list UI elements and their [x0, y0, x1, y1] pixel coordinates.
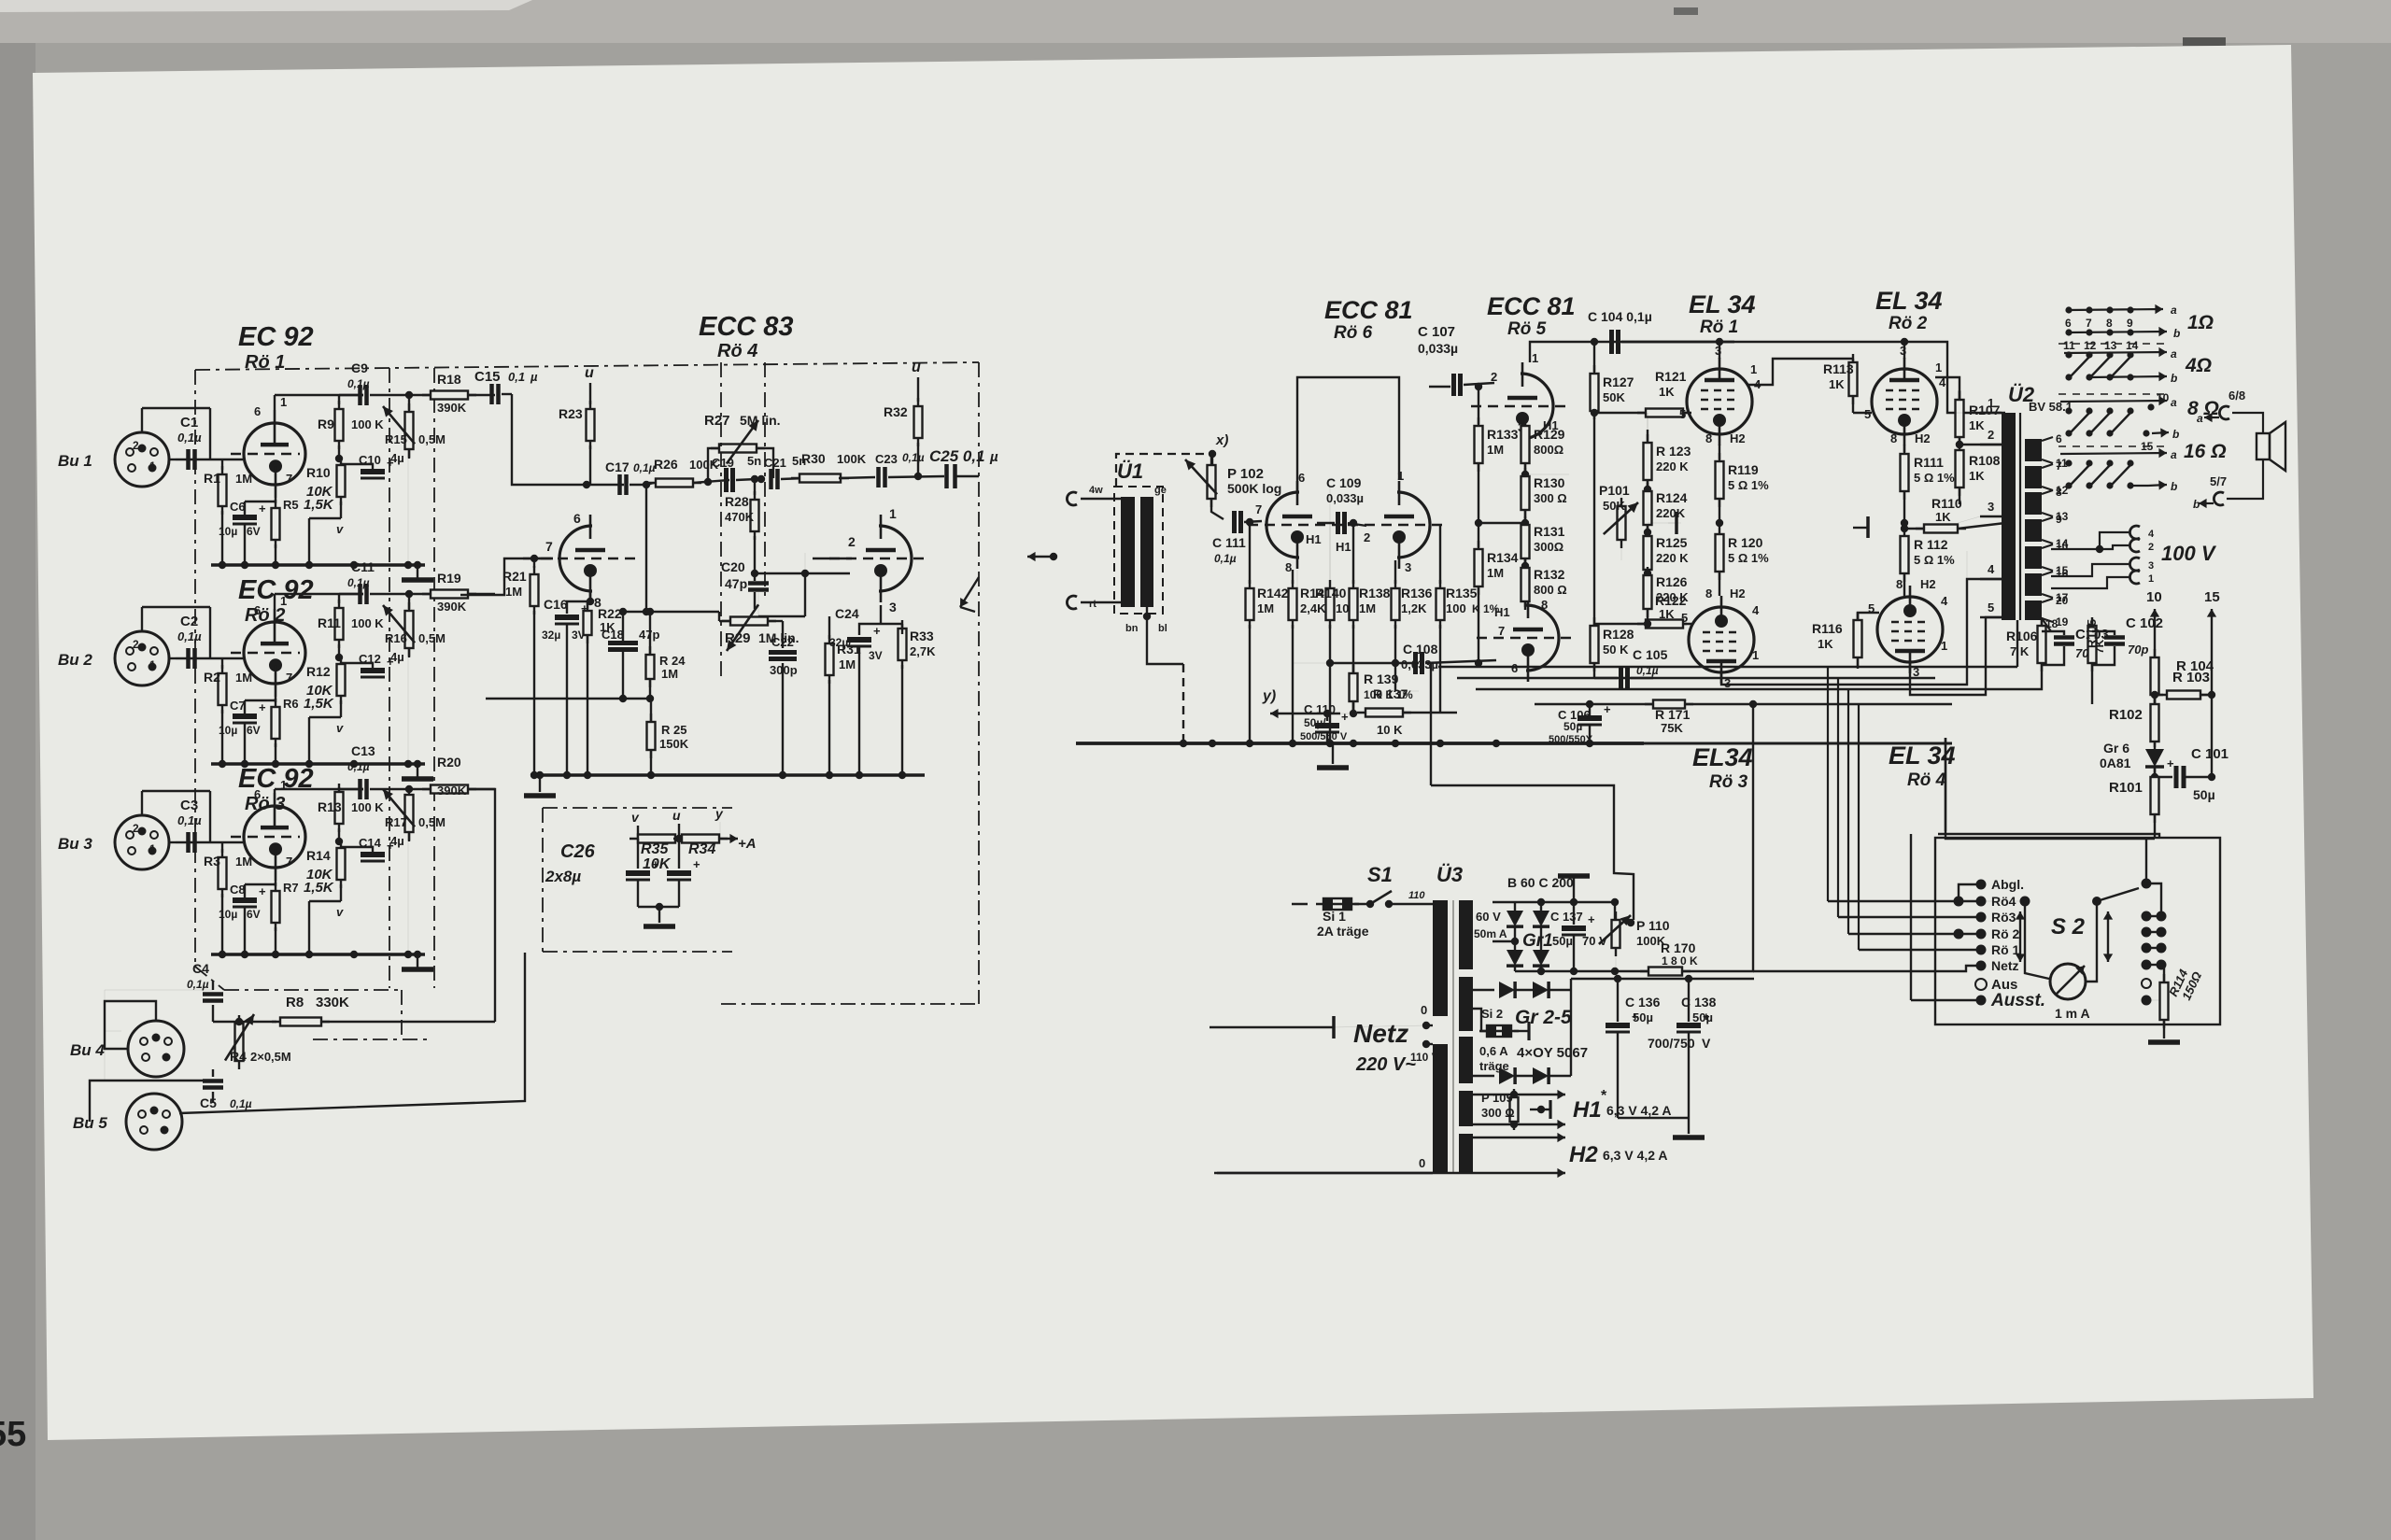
svg-text:1M: 1M: [661, 667, 678, 681]
svg-text:H2: H2: [1569, 1142, 1598, 1167]
svg-text:v: v: [631, 810, 640, 825]
junction row: [623, 611, 719, 613]
svg-text:0,1: 0,1: [508, 370, 525, 384]
svg-text:träge: träge: [1479, 1059, 1509, 1073]
svg-text:Gr1: Gr1: [1522, 931, 1553, 951]
S2 selector contacts left: [1976, 880, 1987, 890]
wire B+ riser: [1752, 704, 1754, 971]
capacitor C14 4µ: [341, 846, 373, 848]
resistor R23: [589, 401, 591, 449]
svg-text:5: 5: [1868, 601, 1875, 615]
wire Bu 3 to grid: [169, 841, 176, 843]
wires 100V taps: [2051, 532, 2129, 549]
svg-text:0,1µ: 0,1µ: [347, 760, 370, 773]
svg-text:H1: H1: [1306, 532, 1322, 546]
svg-text:10 K: 10 K: [1377, 723, 1403, 737]
svg-text:5 Ω 1%: 5 Ω 1%: [1914, 471, 1955, 485]
svg-text:1M: 1M: [235, 671, 252, 685]
svg-text:10µ: 10µ: [219, 908, 237, 921]
resistor R121 1K: [1637, 412, 1691, 414]
svg-text:Rö 4: Rö 4: [717, 341, 757, 361]
wire Ausst feed: [1911, 999, 1981, 1001]
svg-text:R 25: R 25: [661, 723, 686, 737]
svg-text:+A: +A: [738, 836, 757, 852]
svg-text:µ: µ: [989, 449, 998, 465]
svg-text:6,3 V 4,2 A: 6,3 V 4,2 A: [1603, 1148, 1668, 1163]
svg-text:0,1µ: 0,1µ: [177, 629, 202, 643]
svg-text:300Ω: 300Ω: [1534, 540, 1563, 554]
resistor R105 7K: [2091, 620, 2093, 628]
svg-text:y: y: [714, 806, 724, 821]
input jack rt: [1067, 596, 1077, 609]
svg-text:6/8: 6/8: [2228, 389, 2245, 403]
svg-text:R134: R134: [1487, 550, 1519, 565]
resistor R129 800Ω: [1524, 424, 1526, 431]
capacitor C11 0,1µ: [339, 593, 363, 595]
resistor R24 1M: [649, 612, 651, 654]
resistor R123 220K: [1647, 413, 1648, 430]
svg-text:R 139: R 139: [1364, 671, 1399, 686]
meter to right contacts: [2086, 888, 2139, 982]
svg-text:5: 5: [1864, 407, 1871, 421]
svg-text:5M lin.: 5M lin.: [740, 413, 781, 428]
wire R101 to S2 loop: [1945, 738, 2155, 839]
svg-text:1,2K: 1,2K: [1401, 601, 1427, 615]
svg-text:3: 3: [1988, 500, 1994, 514]
lower junction row: [486, 698, 650, 699]
svg-text:R110: R110: [1931, 496, 1962, 511]
resistor R35 10K: [630, 838, 684, 840]
svg-text:1: 1: [1532, 351, 1538, 365]
capacitor C26 2x8µ electrolytic: [637, 839, 639, 869]
svg-text:1K: 1K: [1659, 607, 1675, 621]
svg-text:P101: P101: [1599, 483, 1630, 498]
svg-text:6: 6: [254, 787, 261, 801]
capacitor C8 10µ/6V electrolytic: [244, 884, 246, 897]
resistor R138 1M: [1352, 580, 1354, 629]
svg-text:9: 9: [2127, 317, 2133, 330]
capacitor C16 32µ/3V electrolytic: [589, 589, 591, 601]
wire plate to top rail: [274, 594, 276, 609]
svg-text:0,033µ: 0,033µ: [1401, 657, 1438, 671]
svg-text:P 109: P 109: [1481, 1091, 1513, 1105]
svg-text:15: 15: [2204, 589, 2220, 605]
resistor R8 330K: [235, 1018, 243, 1025]
svg-text:C 136: C 136: [1625, 995, 1661, 1010]
svg-text:R5: R5: [283, 498, 299, 512]
svg-text:2: 2: [1364, 530, 1370, 544]
resistor R34: [675, 835, 683, 842]
svg-text:1: 1: [1750, 362, 1757, 376]
svg-text:4: 4: [1941, 594, 1948, 608]
rectifiers Gr 2-5: [1473, 989, 1494, 991]
svg-text:10µ: 10µ: [219, 724, 237, 737]
svg-text:R130: R130: [1534, 475, 1565, 490]
svg-text:1: 1: [1941, 639, 1947, 653]
main ground bus right section: [1076, 742, 1644, 745]
svg-text:R23: R23: [559, 406, 583, 421]
svg-text:32µ: 32µ: [542, 629, 560, 642]
svg-text:100 K: 100 K: [351, 616, 384, 630]
resistor R116 1K: [1857, 612, 1859, 666]
resistor R103: [2151, 691, 2158, 699]
svg-text:R113: R113: [1823, 361, 1854, 376]
resistor R3 1M: [221, 842, 223, 853]
resistor R6 1,5K: [275, 697, 276, 702]
svg-text:Rö 5: Rö 5: [1507, 319, 1547, 339]
svg-text:110: 110: [1408, 890, 1425, 901]
svg-text:y): y): [1262, 688, 1276, 704]
svg-text:10µ: 10µ: [219, 525, 237, 538]
svg-text:14: 14: [2126, 339, 2139, 352]
wire stage3 bias: [212, 981, 214, 990]
wire plate Rö6b up: [1297, 377, 1399, 492]
svg-text:b: b: [2171, 480, 2177, 493]
svg-text:b: b: [2172, 428, 2179, 441]
wire triode-b grid: [804, 553, 806, 573]
svg-text:+: +: [1604, 702, 1611, 716]
resistor R26 100K: [646, 483, 654, 485]
svg-text:6: 6: [254, 603, 261, 617]
svg-text:Rö 6: Rö 6: [1334, 323, 1373, 343]
capacitor C7 10µ/6V electrolytic: [244, 700, 246, 713]
svg-text:C1: C1: [180, 415, 198, 431]
svg-text:100K: 100K: [837, 452, 867, 466]
svg-text:Si 2: Si 2: [1481, 1007, 1503, 1021]
svg-text:R26: R26: [654, 457, 678, 472]
wire Rö4 plate to U2 pin 5: [1910, 617, 2002, 695]
svg-text:C 108: C 108: [1403, 642, 1438, 657]
svg-text:C18: C18: [601, 628, 624, 642]
bridge bottom rail: [1515, 970, 1616, 972]
svg-text:0,1µ: 0,1µ: [187, 978, 209, 991]
svg-text:R128: R128: [1603, 627, 1634, 642]
svg-text:Rö3: Rö3: [1991, 910, 2016, 925]
svg-text:7 K: 7 K: [2010, 644, 2030, 658]
resistor R127 50K: [1593, 342, 1595, 372]
dash-dot C26 sub-box: [543, 807, 732, 809]
secondary winding 60V: [1459, 900, 1473, 969]
wire R20 to R21 line: [467, 789, 495, 1022]
bottom primary line 0: [1217, 1172, 1433, 1174]
svg-text:220 V~: 220 V~: [1355, 1054, 1416, 1075]
capacitor C137 50µ 70V electrolytic: [1573, 902, 1575, 925]
svg-text:C3: C3: [180, 798, 198, 813]
svg-text:7: 7: [286, 671, 292, 685]
switch S1: [1354, 903, 1370, 905]
svg-text:C 110: C 110: [1304, 702, 1336, 716]
svg-text:1: 1: [149, 842, 156, 855]
svg-text:1K: 1K: [1969, 418, 1985, 432]
svg-text:v: v: [336, 905, 344, 919]
svg-text:R101: R101: [2109, 780, 2143, 796]
svg-text:R129: R129: [1534, 427, 1565, 442]
svg-text:8: 8: [1705, 431, 1712, 445]
svg-text:1M: 1M: [1359, 601, 1376, 615]
capacitor C6 10µ/6V electrolytic: [244, 502, 246, 515]
svg-text:6V: 6V: [247, 724, 261, 737]
capacitor C17 0,1µ: [617, 474, 622, 495]
resistor R9 100K: [338, 395, 340, 404]
resistor R135 100K 1%: [1439, 580, 1441, 629]
capacitor C4 0,1µ: [212, 981, 214, 990]
speaker jack 5/7: [2214, 492, 2224, 505]
resistor R170 180K: [1616, 970, 1654, 972]
svg-text:5 Ω 1%: 5 Ω 1%: [1728, 551, 1769, 565]
svg-text:R119: R119: [1728, 462, 1759, 477]
svg-text:H1: H1: [1573, 1097, 1602, 1123]
tube ECC81 triode Rö6-b: [1397, 492, 1430, 558]
svg-text:4w: 4w: [1089, 485, 1103, 496]
svg-text:2: 2: [2148, 542, 2154, 553]
capacitor C2 0,1µ: [186, 648, 191, 669]
svg-text:300 Ω: 300 Ω: [1534, 491, 1567, 505]
svg-text:7: 7: [1498, 624, 1505, 638]
svg-text:1K: 1K: [1935, 510, 1951, 524]
svg-text:47p: 47p: [725, 576, 747, 591]
svg-text:Bu 2: Bu 2: [58, 651, 92, 669]
svg-text:1: 1: [149, 459, 156, 473]
svg-text:R 112: R 112: [1914, 537, 1948, 552]
potentiometer R15 0,5M: [408, 395, 410, 410]
U2 secondary winding segments: [2025, 439, 2042, 461]
capacitor C109 0,033µ: [1336, 512, 1340, 534]
svg-text:220 K: 220 K: [1656, 459, 1689, 473]
capacitor C3 0,1µ: [186, 832, 191, 853]
svg-text:100 V: 100 V: [2161, 542, 2217, 565]
svg-text:C2: C2: [180, 614, 198, 629]
resistor R124 220K: [1644, 486, 1651, 493]
resistor R125 220K: [1644, 529, 1651, 536]
svg-text:3V: 3V: [869, 649, 883, 662]
svg-text:+: +: [259, 502, 266, 516]
capacitor C9 0,1µ: [339, 394, 363, 396]
svg-text:R18: R18: [437, 372, 461, 387]
svg-text:Bu 1: Bu 1: [58, 452, 92, 470]
svg-text:500/550Y: 500/550Y: [1549, 734, 1593, 745]
svg-text:100 K: 100 K: [351, 800, 384, 814]
wire rail to EL34 Rö2: [1734, 341, 1947, 343]
wire feedback bus 1: [1438, 666, 2017, 668]
svg-text:3: 3: [2148, 560, 2154, 572]
capacitor C12 4µ: [341, 662, 373, 664]
resistor R126 220K: [1644, 570, 1651, 577]
resistor R131 300Ω: [1521, 519, 1529, 527]
resistor R142 1M: [1249, 522, 1251, 584]
resistor R12 10K: [340, 656, 342, 704]
tube EL34 Rö4: [1877, 597, 1943, 662]
svg-text:H2: H2: [1920, 577, 1936, 591]
svg-text:+: +: [873, 624, 881, 638]
svg-text:C12: C12: [359, 652, 381, 666]
wire feedback bus 3: [1476, 669, 2042, 689]
svg-text:C 102: C 102: [2126, 615, 2163, 631]
svg-text:u: u: [585, 365, 594, 381]
secondary winding 300V b: [1459, 1037, 1473, 1083]
transformer Ü1 dashed box: [1114, 487, 1163, 614]
svg-text:800 Ω: 800 Ω: [1534, 583, 1567, 597]
svg-text:0,1µ: 0,1µ: [1214, 552, 1237, 565]
svg-text:ECC 83: ECC 83: [699, 312, 794, 342]
svg-text:50µ: 50µ: [1552, 934, 1573, 948]
transformer Ü3 core gap: [1452, 900, 1454, 1173]
svg-text:R127: R127: [1603, 374, 1634, 389]
resistor R104: [2154, 649, 2156, 703]
svg-text:R140: R140: [1315, 586, 1347, 600]
svg-text:R116: R116: [1812, 621, 1843, 636]
wire inter-section link arrow: [1027, 556, 1054, 558]
tube EL34 Rö2: [1872, 369, 1937, 434]
wire plate to top rail: [274, 789, 276, 793]
dashed link x): [1116, 454, 1212, 487]
svg-text:a: a: [2171, 304, 2177, 317]
capacitor C10 4µ: [341, 463, 373, 465]
wire node down: [645, 485, 647, 612]
svg-text:150K: 150K: [659, 737, 689, 751]
svg-text:EC 92: EC 92: [238, 575, 314, 605]
svg-text:4µ: 4µ: [390, 451, 404, 465]
svg-text:0,1µ: 0,1µ: [902, 451, 925, 464]
capacitor C20 47p: [751, 570, 758, 577]
svg-text:Bu 4: Bu 4: [70, 1041, 105, 1059]
potentiometer R16 0,5M: [408, 594, 410, 609]
svg-text:50µ/: 50µ/: [1304, 716, 1326, 729]
svg-text:v: v: [336, 522, 344, 536]
resistor R137 10K: [1340, 713, 1372, 714]
svg-text:Netz: Netz: [1353, 1019, 1408, 1048]
svg-text:0A81: 0A81: [2100, 756, 2131, 770]
svg-text:R34: R34: [688, 841, 715, 857]
resistor R111 5Ω 1%: [1903, 445, 1905, 452]
svg-text:R29: R29: [725, 630, 751, 646]
svg-text:R22: R22: [598, 606, 622, 621]
svg-text:1: 1: [149, 658, 156, 671]
wire U1 secondary: [1147, 607, 1183, 664]
svg-text:R131: R131: [1534, 524, 1565, 539]
ECC83 ground bus: [531, 773, 925, 776]
svg-text:300 Ω: 300 Ω: [1481, 1106, 1515, 1120]
svg-text:5: 5: [1988, 600, 1994, 615]
svg-text:C 137: C 137: [1550, 910, 1583, 924]
svg-text:10: 10: [2056, 540, 2069, 553]
svg-text:5: 5: [1679, 407, 1686, 421]
capacitor C24 32µ/3V electrolytic: [880, 605, 882, 624]
svg-text:C 109: C 109: [1326, 475, 1362, 490]
svg-text:100: 100: [1446, 601, 1466, 615]
svg-text:5 Ω 1%: 5 Ω 1%: [1728, 478, 1769, 492]
svg-text:+: +: [259, 700, 266, 714]
svg-text:8: 8: [1890, 431, 1897, 445]
svg-text:R1: R1: [204, 471, 220, 486]
resistor R28 470K: [754, 479, 756, 495]
svg-text:v: v: [336, 721, 344, 735]
capacitor C23 0,1µ: [876, 467, 881, 487]
svg-text:C25 0,1: C25 0,1: [929, 447, 985, 465]
svg-text:55: 55: [0, 1415, 26, 1454]
arrow 10 up: [2154, 609, 2156, 659]
svg-text:R135: R135: [1446, 586, 1478, 600]
U2 primary pin wires: [1980, 412, 2002, 414]
wire S2 top to amp: [1938, 834, 2159, 838]
speaker matrix 16 ohm: [2059, 445, 2167, 447]
wire 15 vertical: [2211, 661, 2213, 777]
transformer Ü3 primary bar lower: [1433, 1044, 1448, 1173]
svg-text:R124: R124: [1656, 490, 1688, 505]
svg-text:4Ω: 4Ω: [2185, 355, 2212, 376]
svg-text:*: *: [1601, 1088, 1607, 1104]
resistor R110 1K: [1916, 528, 1966, 530]
svg-text:P 102: P 102: [1227, 466, 1264, 482]
secondary winding H1: [1459, 1091, 1473, 1126]
S2 range arrows: [2019, 911, 2021, 937]
svg-text:R121: R121: [1655, 369, 1687, 384]
svg-text:50µ: 50µ: [1563, 720, 1582, 733]
svg-text:8: 8: [1896, 577, 1903, 591]
resistor R128 50K: [1593, 617, 1595, 671]
resistor R106 7K: [2041, 620, 2043, 628]
svg-text:b: b: [2171, 372, 2177, 385]
svg-text:50µ: 50µ: [1633, 1010, 1653, 1024]
S2 right contact column: [2142, 879, 2152, 889]
svg-text:2: 2: [133, 439, 139, 452]
svg-text:330K: 330K: [316, 995, 349, 1010]
wire splitter mid: [1525, 473, 1569, 475]
resistor R133 1M: [1478, 387, 1479, 424]
potentiometer R27 5M lin: [708, 448, 721, 482]
svg-text:11: 11: [2063, 339, 2075, 352]
svg-text:C 111: C 111: [1212, 535, 1246, 550]
svg-text:x): x): [1215, 432, 1228, 448]
wire Rö3 plate to U2 pin 4: [1721, 579, 2002, 685]
svg-text:4×OY 5067: 4×OY 5067: [1517, 1045, 1588, 1061]
svg-text:R20: R20: [437, 755, 461, 770]
svg-text:0,6 A: 0,6 A: [1479, 1044, 1508, 1058]
svg-text:R 170: R 170: [1661, 940, 1696, 955]
svg-text:3: 3: [1715, 344, 1721, 358]
svg-text:0: 0: [1419, 1156, 1425, 1170]
capacitor C15 0,1µ: [489, 384, 494, 404]
resistor R132 800Ω: [1521, 562, 1529, 570]
svg-text:2: 2: [133, 822, 139, 835]
resistor R119 5Ω 1%: [1719, 445, 1720, 459]
svg-text:1M: 1M: [839, 657, 856, 671]
svg-text:390K: 390K: [437, 784, 467, 798]
resistor R141 2,4K: [1292, 583, 1294, 585]
svg-text:220K: 220K: [1656, 506, 1686, 520]
wires into S2: [1828, 900, 1981, 902]
arrow +A: [719, 838, 738, 840]
svg-text:R21: R21: [502, 569, 527, 584]
svg-text:u: u: [672, 808, 681, 823]
svg-text:13: 13: [2104, 339, 2117, 352]
mains terminal Netz 220V: [1210, 1026, 1334, 1028]
svg-text:R17: R17: [385, 815, 407, 829]
svg-text:2: 2: [1988, 428, 1994, 442]
input socket Bu 3: [115, 815, 169, 869]
capacitor C108 0,033µ: [1353, 662, 1419, 664]
svg-text:10: 10: [2146, 589, 2162, 605]
svg-text:Rö 1: Rö 1: [1991, 942, 2020, 957]
svg-text:+: +: [1341, 710, 1349, 724]
resistor R13 100K: [338, 787, 340, 789]
svg-text:H2: H2: [1730, 586, 1746, 600]
module boundary dash-dot lines (left): [195, 362, 979, 370]
svg-text:1M: 1M: [1487, 566, 1504, 580]
svg-text:9: 9: [2056, 513, 2062, 526]
svg-text:1: 1: [280, 395, 287, 409]
svg-text:2: 2: [848, 534, 856, 549]
tube ECC81 Rö5 upper half: [1521, 374, 1553, 439]
